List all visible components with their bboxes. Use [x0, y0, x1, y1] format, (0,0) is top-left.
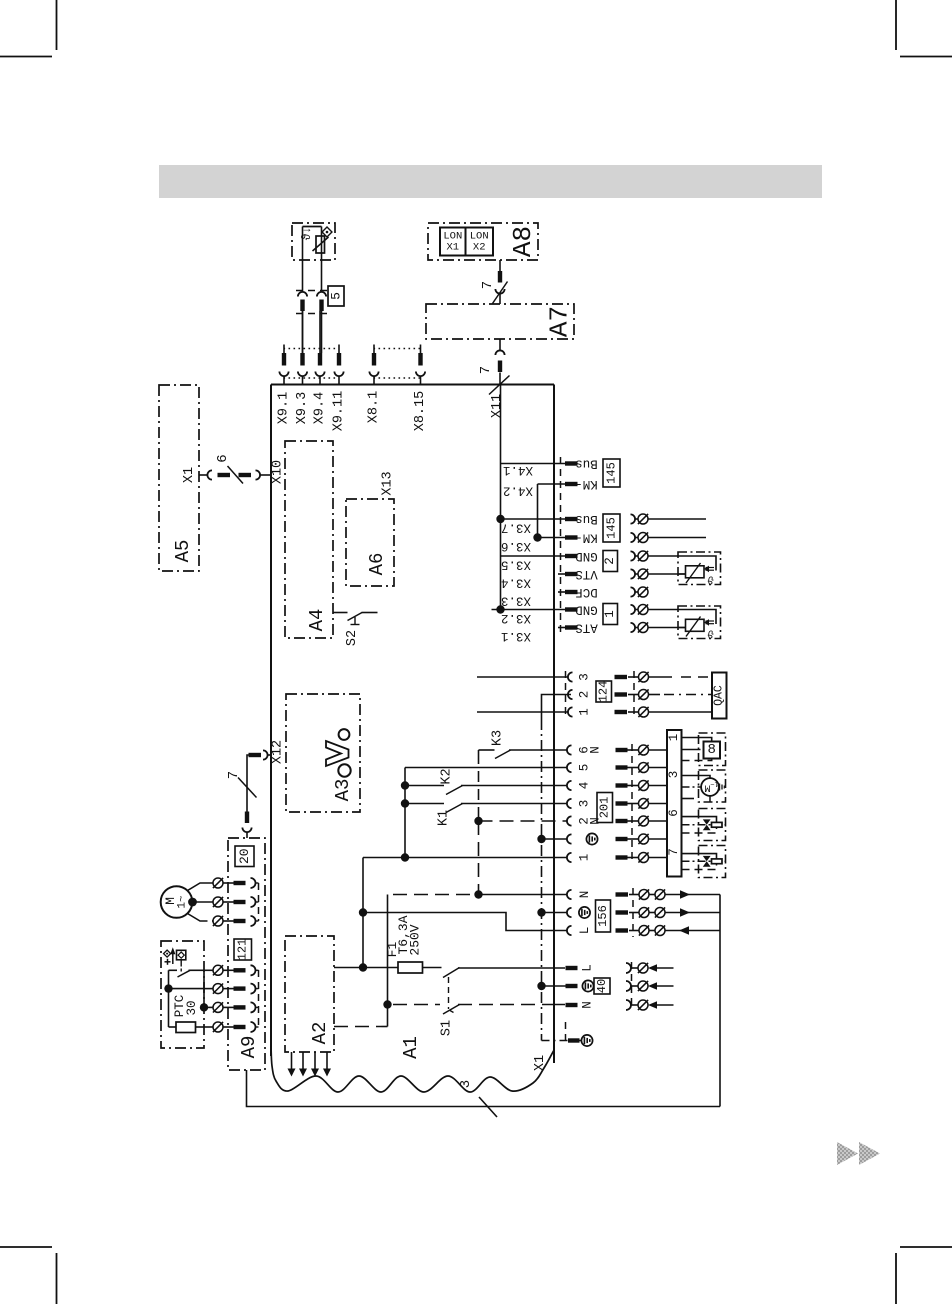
junction dot K1 feed	[401, 799, 409, 807]
wire pin to screw 124 row 1	[628, 711, 639, 713]
junction dot relay feed on row 1	[401, 853, 409, 861]
crop mark top-right	[896, 0, 952, 57]
dashed wire S1 pole2 feed	[393, 1004, 440, 1006]
connector socket arc X9.11	[334, 372, 343, 377]
sensor arrows	[706, 620, 715, 622]
svg-text:L: L	[581, 964, 595, 972]
plug pin X3.4 VTS	[565, 572, 578, 576]
contact K2 wire left	[405, 785, 444, 787]
connector pin X8.15	[418, 353, 422, 366]
plug pin on X12-A9 wire	[245, 812, 249, 824]
contact K3 blade	[495, 750, 511, 759]
wire 201 row to strip y=767.5	[649, 767, 668, 769]
Vitotronic logo small circle	[339, 729, 350, 740]
screw terminal B 156 row y=930.5	[655, 926, 665, 936]
A9 socket arc at y=921	[251, 916, 256, 926]
plug pin 201 row y=839	[616, 837, 628, 841]
pump circle	[701, 778, 719, 796]
contact K3 wire right	[509, 749, 567, 751]
PTC screw terminal y=970.3	[213, 965, 223, 975]
A9 socket arc at y=988.6	[251, 984, 256, 994]
junction dot bus row	[496, 515, 504, 523]
burner control unit A4 dash-dot box	[285, 441, 333, 638]
neutral vertical dashed lower	[478, 821, 480, 895]
wire arc to screw 40 row y=986	[631, 985, 638, 987]
plug pin X3.2 GND	[565, 607, 578, 611]
screw terminal 201 row y=821	[639, 816, 649, 826]
wire 201 row to strip y=750	[649, 749, 668, 751]
svg-text:ϑ: ϑ	[707, 573, 714, 585]
sensor thermistor body right	[686, 566, 705, 578]
svg-text:DCF: DCF	[575, 585, 598, 599]
flow symbol arrow up	[172, 950, 174, 964]
vertical wire N branch	[387, 895, 389, 1027]
socket arc 124 row 3	[568, 672, 573, 681]
A9 wire screw to pin y=988.6	[223, 988, 234, 990]
X1 housing dashes	[565, 1022, 567, 1040]
PTC junction dot left	[164, 984, 172, 992]
plug pin left of cable mark	[218, 473, 231, 477]
junction dot row N	[474, 890, 482, 898]
wire X4.2 to X3.6 vertical	[537, 484, 539, 538]
lead wire row X3.1	[648, 627, 686, 629]
contact K1 wire right	[461, 803, 567, 805]
svg-text:X10: X10	[271, 460, 286, 484]
gas valve 1 actuator	[712, 822, 723, 827]
svg-text:S2: S2	[345, 630, 360, 646]
wire 201 row to strip y=857.5	[649, 857, 668, 859]
svg-text:7: 7	[226, 771, 242, 779]
svg-text:X2: X2	[473, 242, 486, 254]
wire arc to screw 40 row y=968	[631, 967, 638, 969]
pump stub top	[682, 776, 711, 779]
vertical wire from A2 to row 1	[362, 858, 364, 968]
wire A9 bottom to ground rail	[247, 1070, 721, 1107]
sensor phi diamond symbol	[322, 227, 332, 237]
plug strip rectangle	[667, 730, 682, 877]
screw terminal 40 row y=986	[638, 981, 648, 991]
svg-text:M: M	[704, 782, 710, 794]
LON X1 jack box	[440, 228, 466, 256]
plug pin 201 row y=767.5	[616, 765, 628, 769]
svg-text:3: 3	[578, 673, 592, 681]
crop mark top-left	[0, 0, 57, 57]
A9 plug housing dashes group 2	[258, 970, 260, 1027]
svg-text:7: 7	[480, 281, 496, 289]
motor junction dot	[188, 898, 197, 907]
socket tail X9.1	[283, 376, 285, 385]
gas valve 1 dash-dot axis	[682, 824, 726, 826]
screw terminal 201 row y=767.5	[639, 763, 649, 773]
A9 wire screw to pin y=902	[223, 901, 234, 903]
svg-text:X3.3: X3.3	[501, 594, 531, 608]
A9 plug housing dashes group 1	[258, 883, 260, 921]
socket arc 201 row y=803.5	[567, 799, 572, 808]
gas valve 2 stub bottom dashed	[682, 864, 717, 870]
svg-text:A5: A5	[172, 540, 194, 563]
motor wire row 2	[193, 901, 214, 903]
plug pin X3.1 ATS	[565, 625, 578, 629]
A9 plug pin at y=921	[234, 919, 246, 923]
svg-text:2: 2	[603, 557, 617, 565]
QAC lead row 3 dashed	[649, 676, 673, 678]
socket arc 40 row y=968	[626, 963, 631, 973]
motor wire row 3	[188, 914, 208, 922]
terminal code box 124	[596, 681, 612, 702]
svg-text:X8.1: X8.1	[367, 391, 382, 423]
plug pin 201 row y=785.5	[616, 783, 628, 787]
svg-text:N: N	[581, 1001, 595, 1009]
pin stub above X8.1	[373, 345, 375, 354]
socket arc 156 row y=894.5	[567, 890, 572, 899]
contact K2 blade	[446, 786, 463, 795]
124 pin housing dashed line	[633, 671, 635, 718]
A9 wire screw to pin y=1027	[223, 1026, 234, 1028]
svg-text:X3.4: X3.4	[501, 576, 531, 590]
flow switch sensor square	[177, 950, 186, 960]
socket arc at board side	[256, 470, 261, 479]
svg-text:X3.7: X3.7	[501, 521, 531, 535]
screw terminal B 156 row y=894.5	[655, 890, 665, 900]
A9 socket arc at y=1007.4	[251, 1002, 256, 1012]
PTC junction dot middle	[200, 1003, 208, 1011]
earth symbol 156 row	[579, 907, 590, 918]
socket tail X9.11	[338, 376, 340, 385]
mains lead 156 row y=930.5	[665, 930, 720, 932]
socket arc 124 row 2	[568, 690, 573, 699]
contact K3 feed corner	[479, 749, 495, 751]
sensor lead wire left to X9.3	[302, 311, 304, 353]
svg-text:S1: S1	[440, 1020, 455, 1036]
socket tail X9.4	[319, 376, 321, 385]
Vitotronic logo large circle	[338, 764, 350, 776]
wire pin to screw 201 row y=750	[628, 749, 639, 751]
A9 plug pin at y=902	[234, 900, 246, 904]
terminal code box 145 (KM device)	[603, 514, 620, 542]
wire X11 bus vertical	[500, 385, 502, 610]
terminal code box 121	[234, 939, 252, 960]
plug pin on X11 wire	[498, 361, 502, 373]
A9 socket arc at y=883	[251, 878, 256, 888]
7-core cable slash at A8 wire	[493, 282, 508, 304]
communication module A7 dash-dot box	[426, 304, 574, 339]
svg-text:X8.15: X8.15	[413, 391, 428, 432]
svg-text:145: 145	[605, 462, 619, 484]
wire into pin X9.3	[302, 311, 304, 353]
pin stub above X8.15	[420, 345, 422, 354]
socket arc 124 row 1	[568, 707, 573, 716]
plug pin 124 row 2	[615, 692, 628, 696]
contact K2 wire right	[461, 785, 567, 787]
protective-earth bus dash-dot vertical	[541, 719, 543, 1041]
header bar	[159, 165, 822, 198]
wire arc to screw 40 row y=1005	[631, 1004, 638, 1006]
svg-text:Bus: Bus	[575, 457, 598, 471]
wire into 124 row 1	[477, 711, 568, 713]
mains lead 156 row y=912.5	[665, 912, 720, 914]
PTC block wire to screw y=970.3	[204, 969, 213, 971]
A9 socket arc at y=902	[251, 897, 256, 907]
switch S1 pole 1 blade	[443, 968, 460, 978]
plug pin 156 row y=912.5	[616, 910, 629, 914]
plug pin 124 row 3	[615, 675, 628, 679]
screw terminal 124 row 2	[639, 690, 649, 700]
connector pin X9.3	[300, 353, 304, 366]
sensor thermistor body right	[686, 619, 705, 631]
connector socket arc X8.15	[416, 372, 425, 377]
screw terminal 201 row y=785.5	[639, 781, 649, 791]
wire pin to screw 201 row y=857.5	[628, 857, 639, 859]
A2 output arrow 4	[326, 1052, 328, 1069]
socket arc 201 row y=767.5	[567, 763, 572, 772]
A9 plug pin at y=1027	[234, 1025, 246, 1029]
junction dot row 2N	[474, 817, 482, 825]
corner feed row 5	[405, 767, 567, 769]
motor screw terminal row y=883	[213, 878, 223, 888]
screw terminal A 156 row y=930.5	[639, 926, 649, 936]
A9 arc tail y=970.3	[256, 969, 259, 971]
A9 arc tail y=1007.4	[256, 1006, 259, 1008]
QAC lead row 2 dash-dot	[649, 694, 661, 696]
A9 arc tail y=883	[256, 882, 259, 884]
plug pin on A8 wire	[498, 271, 502, 283]
external lead arrow 40	[648, 982, 657, 990]
wire between screws 156 row y=930.5	[649, 930, 655, 932]
A2 output arrow 1	[291, 1052, 293, 1069]
wire A5 to plug	[199, 474, 208, 476]
junction dot L branch	[359, 908, 367, 916]
socket arc 40 row y=986	[626, 981, 631, 991]
plug pin X3.5 GND	[565, 554, 578, 558]
outside sensor dash-dot box	[292, 223, 335, 260]
socket tail X8.15	[420, 376, 422, 385]
button S2 plunger	[354, 617, 356, 625]
wire row X3.4 VTS stub	[558, 573, 565, 575]
svg-text:N: N	[578, 891, 592, 899]
lead wire row X3.4	[648, 573, 686, 575]
wire pin to screw 201 row y=785.5	[628, 785, 639, 787]
A9 arc tail y=988.6	[256, 988, 259, 990]
svg-text:1~: 1~	[710, 779, 718, 787]
svg-text:K3: K3	[491, 730, 506, 746]
sensor plug socket arc right	[317, 292, 326, 297]
svg-text:X1: X1	[446, 242, 459, 254]
wire pin to screw 201 row y=821	[628, 820, 639, 822]
flow symbol diamond	[164, 950, 171, 957]
wire row 1 L feed	[363, 857, 567, 859]
connector socket arc X8.1	[369, 372, 378, 377]
sensor wire lower	[678, 573, 686, 575]
mains arrow left	[679, 926, 689, 934]
plug pin 201 row y=750	[616, 748, 628, 752]
sensor dash-dot box right	[678, 606, 721, 639]
terminal code box 1	[603, 604, 618, 625]
leader line for label 3	[479, 1097, 497, 1117]
connector X9 housing dotted bottom	[284, 377, 340, 379]
external lead arrow 40	[648, 964, 657, 972]
plug pin at X12	[249, 753, 262, 757]
svg-text:145: 145	[605, 517, 619, 539]
plug pin right of cable mark	[239, 473, 252, 477]
wire pin to screw 156 row y=912.5	[629, 912, 639, 914]
plug pin 40 row y=968	[566, 966, 578, 970]
wire row L with jog	[363, 913, 567, 931]
A9 socket arc at y=970.3	[251, 965, 256, 975]
svg-text:5: 5	[329, 292, 344, 300]
PTC middle vertical wire	[203, 970, 205, 1007]
gas valve 1 dash-dot box	[699, 809, 726, 841]
socket arc on X11 wire	[495, 350, 504, 355]
screw terminal 124 row 1	[639, 707, 649, 717]
plug pin X3.7 Bus	[565, 517, 578, 521]
124 plug housing dashed line upper	[565, 671, 567, 718]
svg-text:A2: A2	[309, 1022, 331, 1045]
socket arc row X3.5	[631, 551, 636, 560]
svg-text:A1: A1	[400, 1036, 422, 1059]
PTC row 2 wire	[169, 988, 205, 990]
pump stub bottom	[682, 798, 695, 800]
flow switch contact wire right	[189, 969, 205, 971]
contact K1 wire left	[405, 803, 444, 805]
motor screw terminal row y=921	[213, 916, 223, 926]
screw terminal row X3.4	[638, 569, 648, 579]
pin stub above X9.1	[283, 345, 285, 354]
fuse F1 body	[398, 962, 423, 973]
svg-text:N: N	[589, 746, 603, 754]
gas valve 2 actuator	[712, 859, 723, 864]
junction dot N to S1	[383, 1000, 391, 1008]
neutral dashed wire from corner to row N	[393, 894, 474, 896]
contact K1 blade	[446, 804, 463, 813]
6-core cable slash X10	[228, 466, 244, 484]
plug pin X3.6 KM-	[565, 535, 578, 539]
socket arc on X12-A9 wire	[242, 828, 251, 833]
plug pin 40 row y=1005	[566, 1003, 578, 1007]
156 pin housing dashed line	[632, 888, 634, 937]
socket arc 201 row y=785.5	[567, 781, 572, 790]
gas valve 2 bowtie	[703, 856, 711, 861]
svg-text:4: 4	[578, 782, 592, 790]
A9 plug pin at y=988.6	[234, 986, 246, 990]
plug pin 40 row y=986	[566, 984, 578, 988]
lead wire row X3.6	[648, 537, 706, 539]
sensor wire left (from box to plug)	[302, 227, 304, 292]
A2 output arrow 3	[314, 1052, 316, 1069]
programming unit A3 dash-dot box	[286, 694, 360, 812]
pin stub above X9.11	[338, 345, 340, 354]
svg-text:6: 6	[667, 809, 681, 817]
PTC screw terminal y=1027	[213, 1022, 223, 1032]
svg-text:1~: 1~	[177, 895, 189, 909]
plug pin X3.3 DCF	[565, 590, 578, 594]
power unit A2 dash-dot box	[285, 936, 334, 1052]
socket tail X8.1	[373, 376, 375, 385]
svg-text:K2: K2	[440, 768, 455, 784]
Vitotronic logo V glyph	[326, 741, 349, 766]
wire pin to screw 124 row 3	[628, 676, 639, 678]
plug housing dashes above sensor plug	[296, 290, 327, 292]
svg-text:X4.1: X4.1	[503, 463, 533, 477]
PTC screw terminal y=988.6	[213, 984, 223, 994]
junction dot PE bus at 40	[537, 982, 545, 990]
button S2 wire right	[362, 612, 378, 614]
wire row X3.1 ATS stub	[558, 627, 565, 629]
wire PE row 156	[542, 912, 568, 914]
sensor thermistor body	[316, 236, 325, 253]
A9 socket arc at y=1027	[251, 1022, 256, 1032]
wire A7 to X11	[499, 339, 501, 351]
crop mark bottom-right	[896, 1247, 952, 1304]
socket arc on A8 wire	[495, 289, 504, 294]
switch S1 pole 2 tick	[450, 1011, 454, 1013]
ignition unit inner square	[704, 742, 721, 759]
wire row X3.2 GND	[492, 609, 566, 611]
40 pin housing dashed line	[631, 962, 633, 1010]
mains rail right	[719, 895, 721, 1107]
wire row X3.7 Bus	[501, 518, 566, 520]
svg-text:X13: X13	[381, 471, 396, 495]
ignition unit A9 dash-dot box	[228, 838, 265, 1070]
connector X8 housing dotted top	[374, 348, 422, 350]
screw terminal 201 row y=857.5	[639, 853, 649, 863]
remote unit A5 dash-dot box	[159, 385, 199, 571]
svg-text:X4.2: X4.2	[503, 484, 533, 498]
page-forward arrow 1	[837, 1142, 858, 1165]
button S2 wire from A4	[333, 612, 348, 614]
dashed link A2 to N vertical	[334, 1026, 388, 1028]
svg-text:X3.1: X3.1	[501, 629, 531, 643]
wire pin to screw 156 row y=930.5	[629, 930, 639, 932]
wire 201 row to strip y=839	[649, 838, 668, 840]
screw terminal 201 row y=803.5	[639, 799, 649, 809]
wire between screws 156 row y=894.5	[649, 894, 655, 896]
controller board A1 wavy bottom edge	[271, 1046, 554, 1092]
svg-text:1: 1	[667, 734, 681, 742]
wire pin to screw 201 row y=767.5	[628, 767, 639, 769]
svg-text:121: 121	[236, 939, 250, 961]
wire row X4.1 Bus	[501, 463, 566, 465]
junction dot KM row	[533, 533, 541, 541]
screw terminal 40 row y=968	[638, 963, 648, 973]
lead wire row X3.7	[648, 518, 706, 520]
A9 arc tail y=902	[256, 901, 259, 903]
mains arrow right	[680, 890, 690, 898]
wire N dashed from S1 pole 2	[458, 1004, 546, 1006]
terminal code box 145 (KM bus)	[603, 459, 620, 487]
connector pin X8.1	[372, 353, 376, 366]
sensor lead wire right to X9.4	[321, 311, 323, 353]
socket arc row X3.1	[631, 623, 636, 632]
sensor wire lower	[678, 627, 686, 629]
pump stub middle	[682, 786, 702, 788]
earth symbol 40 row	[582, 980, 593, 991]
wire into 124 row 2 corner	[542, 695, 572, 720]
PTC left vertical wire	[168, 970, 170, 1027]
sensor thermistor slash right	[686, 563, 701, 583]
svg-text:156: 156	[596, 905, 610, 927]
connector socket arc X9.1	[279, 372, 288, 377]
screw terminal row X3.2	[638, 605, 648, 615]
gas valve 2 stub top	[682, 854, 717, 860]
earth symbol 201 row	[586, 833, 597, 844]
socket arc row X3.6	[631, 533, 636, 542]
socket arc 201 row y=821	[567, 816, 572, 825]
dashed wire row 2N	[479, 820, 568, 822]
PTC resistor wire right	[196, 1026, 205, 1028]
plug pin 124 row 1	[615, 710, 628, 714]
A9 arc tail y=1027	[256, 1026, 259, 1028]
connector X8 housing dotted bottom	[374, 377, 422, 379]
